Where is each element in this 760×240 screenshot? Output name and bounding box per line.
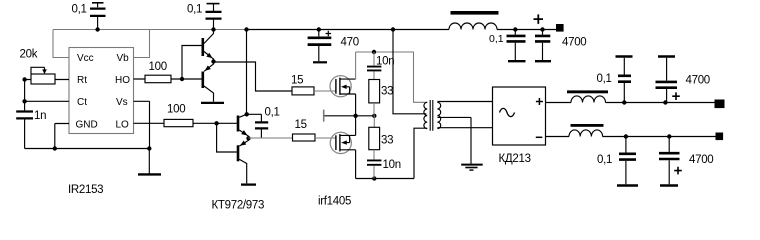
- terminal -out: [716, 133, 724, 141]
- junction C6: [624, 134, 628, 138]
- inductor L3 input choke: [449, 11, 499, 30]
- wire snubber1 bottom (gray): [373, 103, 375, 116]
- capacitor C7 4700: [659, 137, 682, 186]
- junction ground bus end: [147, 146, 151, 150]
- junction snubber2 bottom: [372, 176, 376, 180]
- junction HO base tie: [180, 77, 184, 81]
- junction sources: [353, 114, 357, 118]
- wire GND pin leg: [55, 124, 69, 149]
- junction VT3 collector node: [245, 112, 249, 116]
- junction C9: [540, 27, 544, 31]
- wire gate Q2 (gray): [315, 137, 336, 139]
- junction C4: [622, 100, 626, 104]
- junction snubber1 top: [372, 50, 376, 54]
- resistor R1 20k potentiometer: [25, 67, 69, 84]
- ground G6: [313, 61, 327, 63]
- junction C7: [667, 134, 671, 138]
- capacitor C3 0,1: [247, 114, 269, 138]
- svg-text:1n: 1n: [34, 110, 46, 122]
- svg-text:0,1: 0,1: [597, 73, 612, 85]
- wire pair2 collector riser: [246, 30, 248, 115]
- wire Q1 drain route (gray): [356, 52, 428, 102]
- capacitor C2 1n: [16, 101, 33, 148]
- plus sign input: [534, 14, 544, 24]
- capacitor C11 10n: [367, 52, 381, 80]
- transistor Q2 irf1405: [330, 132, 355, 153]
- junction C8: [513, 27, 517, 31]
- wire -out rail: [546, 136, 716, 138]
- svg-text:0,1: 0,1: [72, 4, 87, 16]
- junction GND leg: [53, 146, 57, 150]
- wire +12V top rail left (gray): [53, 29, 248, 31]
- ground G1: [148, 149, 150, 174]
- wire base tie pair1: [182, 46, 202, 80]
- wire pair1 output to gate: [214, 62, 293, 91]
- junction pair1 emitter node: [211, 59, 215, 63]
- wire +out rail: [546, 102, 715, 104]
- wire Vcc corner: [53, 30, 69, 58]
- svg-text:0,1: 0,1: [265, 107, 280, 119]
- transistor VT1 KT972: [203, 30, 214, 62]
- svg-text:100: 100: [149, 61, 167, 73]
- junction C10 rail: [317, 27, 321, 31]
- wire +12V top rail mid: [248, 29, 449, 31]
- terminal +out: [715, 100, 725, 109]
- svg-text:КТ972/973: КТ972/973: [212, 200, 265, 212]
- resistor R5 15: [293, 134, 316, 141]
- transistor Q1 irf1405: [330, 76, 356, 97]
- svg-text:100: 100: [167, 104, 185, 116]
- resistor R6 33: [369, 80, 380, 103]
- ground G3: [241, 183, 256, 185]
- svg-text:33: 33: [381, 135, 393, 147]
- wire Q2 source route: [356, 128, 428, 178]
- svg-text:irf1405: irf1405: [318, 196, 351, 208]
- diode bridge U2 KD213: [493, 87, 546, 145]
- inductor L2: [569, 124, 604, 137]
- inductor L1: [567, 90, 608, 102]
- svg-text:470: 470: [341, 37, 359, 49]
- svg-text:Rt: Rt: [77, 75, 87, 86]
- capacitor C2b 0,1: [206, 4, 222, 30]
- wire Vs leg: [134, 101, 150, 148]
- junction C1-rail: [95, 27, 99, 31]
- capacitor C8 0,1 input: [507, 30, 526, 62]
- capacitor C12 10n: [367, 150, 381, 179]
- transistor VT4 KT973: [238, 138, 249, 183]
- svg-text:10n: 10n: [383, 159, 401, 171]
- svg-text:4700: 4700: [689, 154, 713, 166]
- capacitor C6 0,1: [617, 137, 638, 186]
- svg-text:10n: 10n: [376, 56, 394, 68]
- junction CT rail: [391, 27, 395, 31]
- wire center tap +12V: [393, 30, 426, 114]
- svg-text:Ct: Ct: [77, 97, 87, 108]
- wire Ct: [25, 100, 69, 102]
- resistor R4 15: [292, 87, 314, 95]
- svg-text:4700: 4700: [686, 75, 710, 87]
- svg-text:IR2153: IR2153: [68, 184, 103, 196]
- capacitor C9 4700 input: [535, 30, 551, 62]
- svg-text:33: 33: [381, 86, 393, 98]
- wire Rt-Ct vertical: [24, 80, 26, 102]
- wire pair2 output (gray): [249, 137, 293, 139]
- resistor R3 100: [134, 119, 217, 126]
- terminal +12V input: [556, 24, 564, 32]
- svg-text:LO: LO: [116, 119, 130, 130]
- capacitor C4 0,1: [616, 57, 633, 103]
- junction Rt-pot: [22, 77, 26, 81]
- svg-text:0,1: 0,1: [597, 154, 612, 166]
- junction pair2 emitter node: [246, 136, 250, 140]
- svg-text:GND: GND: [76, 119, 98, 130]
- ground G5 source bar (gray): [323, 110, 325, 122]
- wire base tie pair2: [217, 123, 237, 152]
- svg-text:HO: HO: [115, 75, 130, 86]
- transformer T1: [424, 100, 441, 131]
- svg-text:Vs: Vs: [116, 97, 128, 108]
- wire secondary top: [437, 101, 492, 103]
- wire secondary bottom: [437, 127, 492, 129]
- wire Vb riser: [134, 30, 150, 58]
- junction Ct node: [22, 99, 26, 103]
- svg-text:Vcc: Vcc: [77, 53, 94, 64]
- svg-text:20k: 20k: [20, 49, 38, 61]
- svg-text:0,1: 0,1: [187, 4, 202, 16]
- transistor VT3 KT972: [238, 114, 249, 138]
- svg-text:15: 15: [291, 75, 303, 87]
- svg-text:4700: 4700: [562, 37, 586, 49]
- resistor R2 100: [134, 75, 183, 83]
- capacitor C10 470 electrolytic: [308, 30, 332, 62]
- capacitor C1 0,1: [90, 3, 106, 30]
- wire gate Q1 (gray): [314, 90, 336, 92]
- junction snubber mid: [372, 114, 376, 118]
- wire common source node: [324, 115, 375, 117]
- resistor R7 33: [369, 116, 380, 150]
- IC U1 IR2153: [69, 48, 134, 134]
- junction C5: [663, 100, 667, 104]
- transistor VT2 KT973: [203, 62, 214, 102]
- wire Q2 drain: [355, 116, 357, 136]
- wire secondary center tap: [437, 117, 471, 163]
- capacitor C5 4700: [656, 57, 680, 103]
- wire ground bus bottom: [25, 148, 150, 150]
- junction pair2 collector rail: [244, 27, 248, 31]
- junction VT1 collector rail: [211, 27, 215, 31]
- wire +12V top rail right: [497, 29, 556, 31]
- svg-text:Vb: Vb: [117, 53, 130, 64]
- wire Q1 source: [355, 94, 357, 116]
- ground G4 earth: [461, 165, 483, 171]
- svg-text:0,1: 0,1: [489, 33, 504, 45]
- svg-text:КД213: КД213: [499, 153, 531, 165]
- svg-text:15: 15: [295, 119, 307, 131]
- ground G2: [201, 102, 224, 104]
- junction LO base tie: [214, 121, 218, 125]
